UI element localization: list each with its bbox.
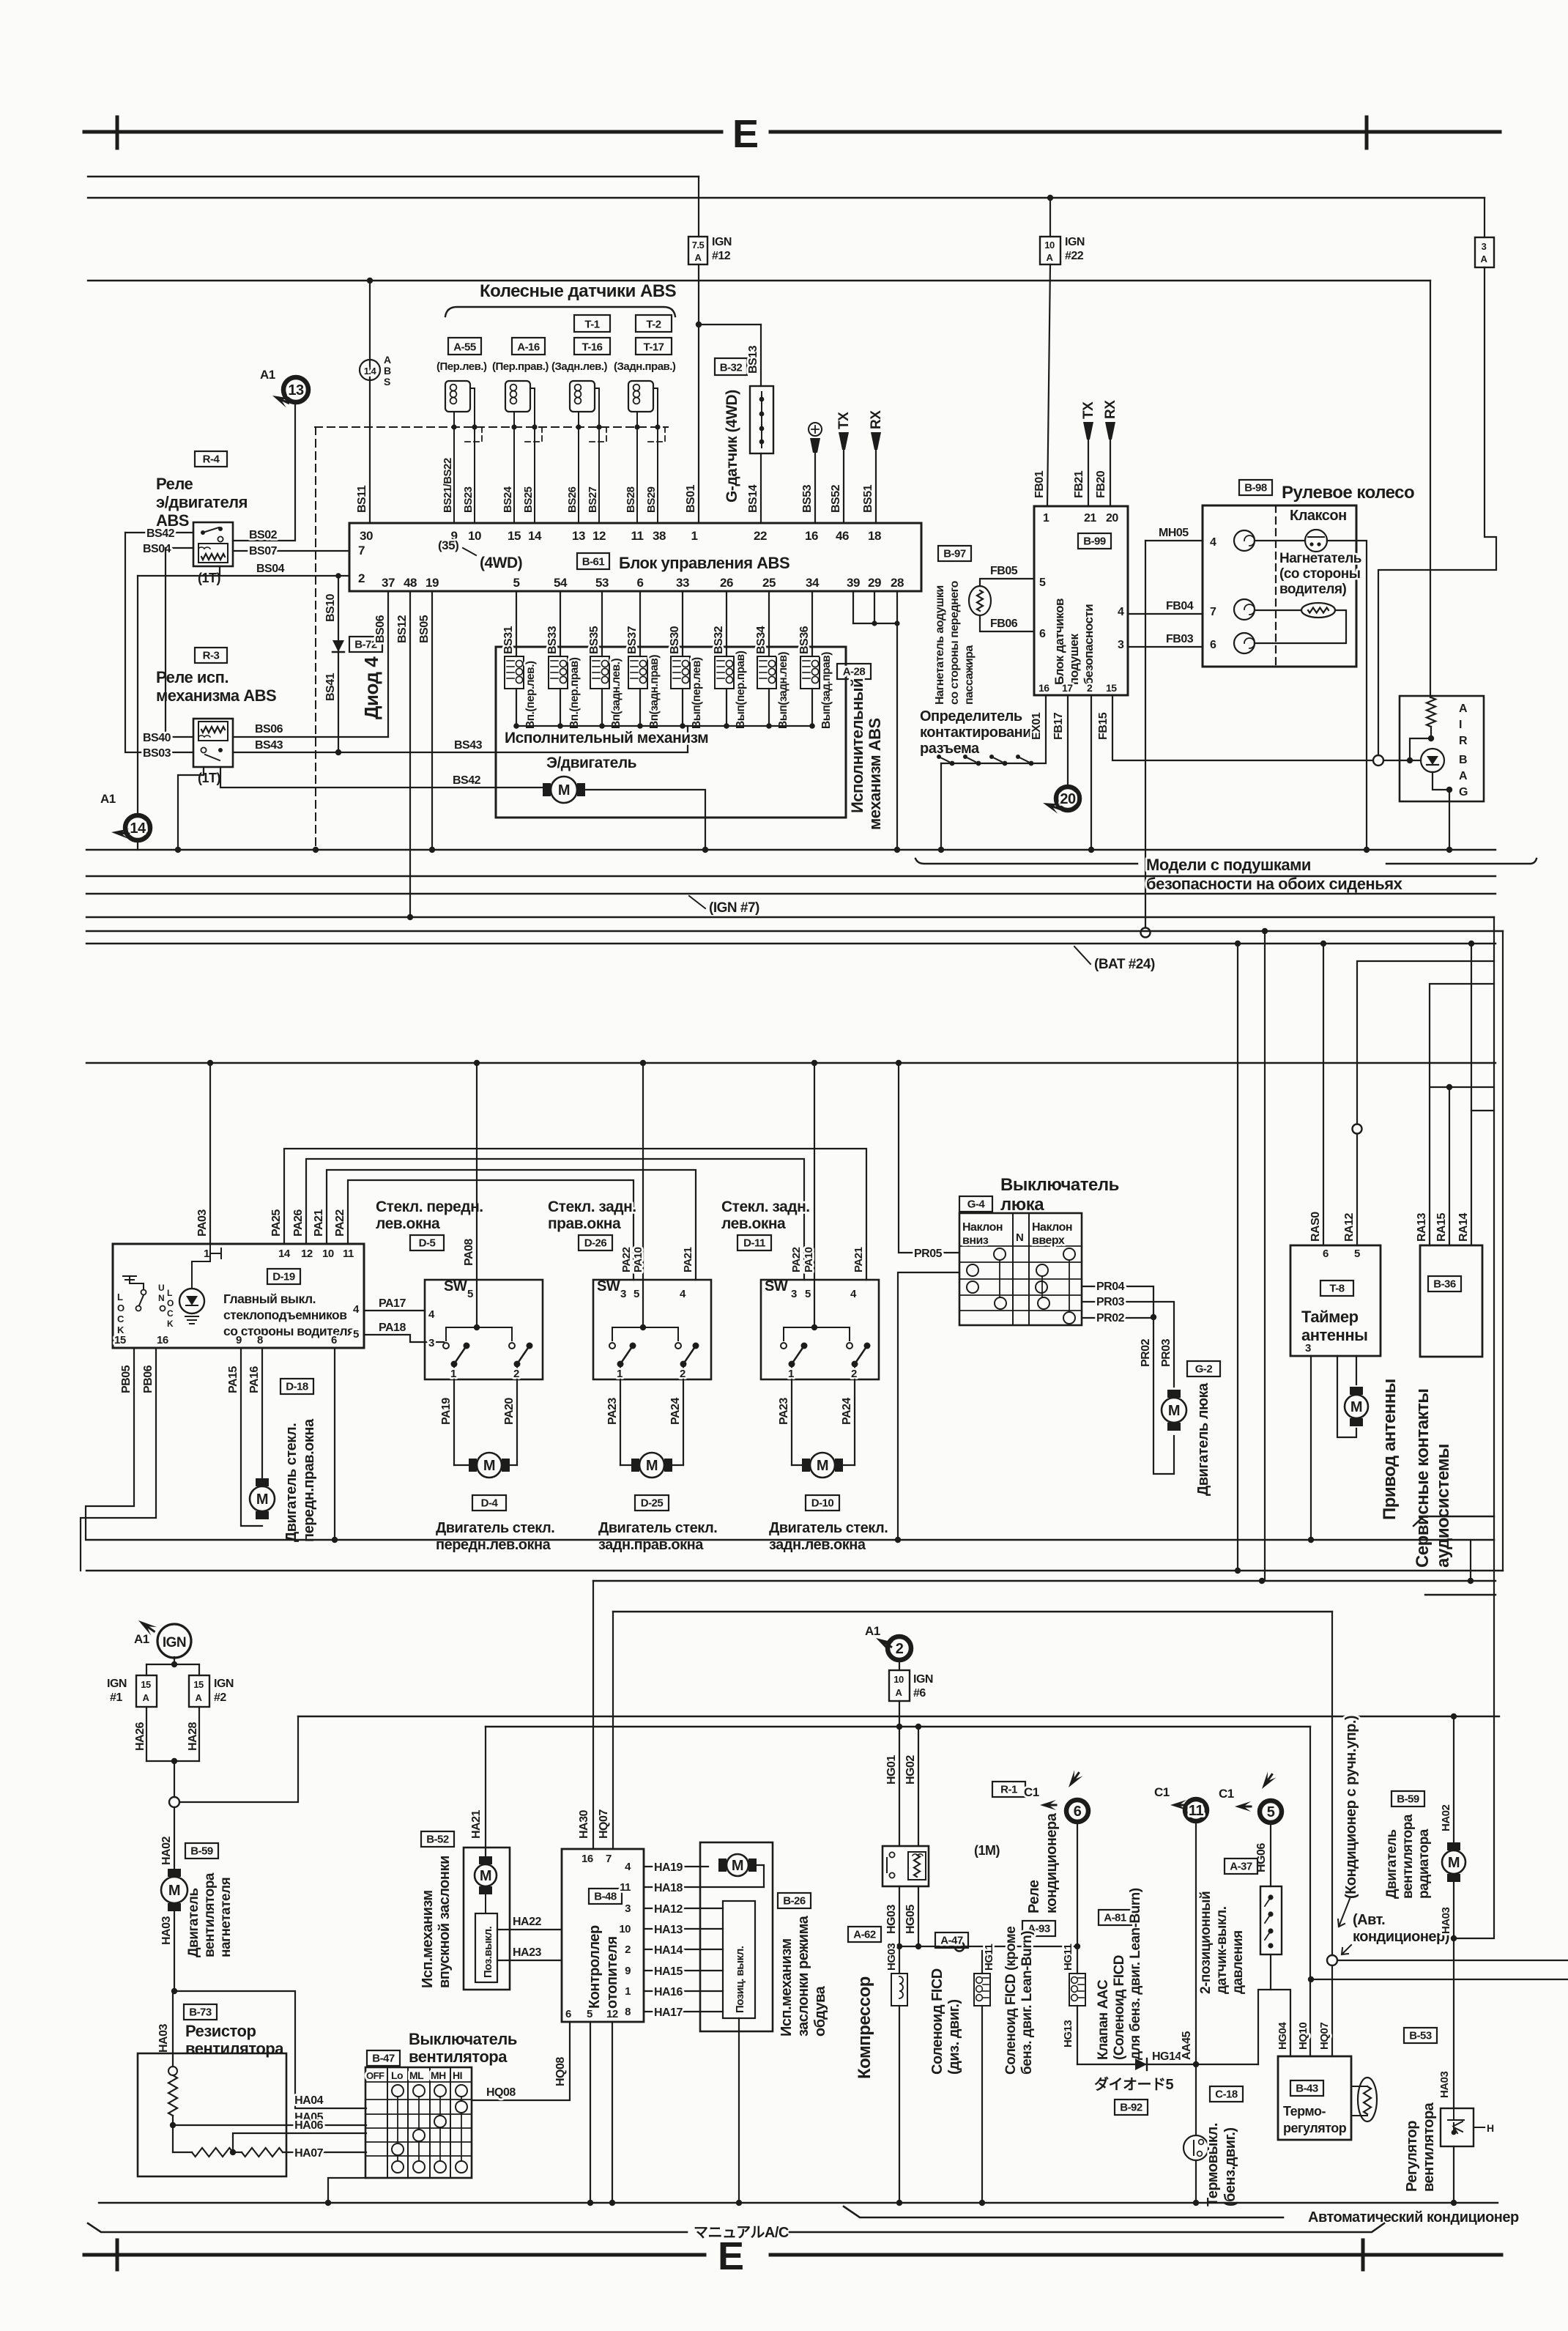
- svg-text:Резистор: Резистор: [185, 2022, 256, 2040]
- svg-text:Нагнетатель аодушки: Нагнетатель аодушки: [934, 585, 946, 705]
- svg-text:HG01: HG01: [885, 1755, 898, 1785]
- svg-text:(Пер.лев.): (Пер.лев.): [436, 360, 487, 373]
- svg-text:16: 16: [157, 1334, 168, 1346]
- svg-text:HA21: HA21: [470, 1809, 483, 1839]
- svg-text:A: A: [896, 1687, 903, 1698]
- svg-text:вентилятора: вентилятора: [185, 2039, 284, 2058]
- svg-text:HA03: HA03: [157, 2023, 170, 2053]
- svg-text:BS41: BS41: [324, 672, 337, 701]
- wire HA03 rad: [1453, 1882, 1454, 2108]
- svg-text:безопасности: безопасности: [1082, 604, 1096, 685]
- svg-text:B-98: B-98: [1244, 482, 1267, 494]
- svg-text:O: O: [167, 1298, 174, 1308]
- svg-text:вниз: вниз: [962, 1234, 989, 1247]
- svg-text:регулятор: регулятор: [1283, 2121, 1347, 2135]
- svg-text:D-26: D-26: [584, 1237, 607, 1250]
- svg-text:HA30: HA30: [578, 1809, 590, 1839]
- wire LED feed: [192, 1244, 210, 1289]
- wire bus top3: [88, 280, 1430, 281]
- wire squib return: [1255, 610, 1346, 643]
- arrow connector 14: [111, 827, 129, 839]
- svg-text:Соленоид FICD (кроме: Соленоид FICD (кроме: [1003, 1927, 1019, 2075]
- svg-text:RA14: RA14: [1457, 1212, 1470, 1242]
- wire sensor1 right lead: [470, 388, 475, 523]
- wire BS07 to ABS pin7: [233, 550, 349, 552]
- svg-text:G-датчик (4WD): G-датчик (4WD): [724, 390, 740, 503]
- wire BS06 R-3 to ABS pin37: [233, 736, 388, 738]
- wire pressure switch to AA45: [1258, 1954, 1271, 2064]
- node air bag resistor: [1428, 735, 1434, 741]
- wire HG14: [1077, 2064, 1196, 2065]
- bottom border tick right: [1361, 2240, 1365, 2269]
- svg-text:R-4: R-4: [203, 453, 220, 466]
- svg-text:37: 37: [382, 576, 395, 590]
- connector label B-59 blower: [185, 1843, 218, 1858]
- svg-text:вентилятора: вентилятора: [202, 1872, 218, 1957]
- svg-text:заслонки режима: заслонки режима: [795, 1915, 811, 2037]
- solenoid valve Вып(зад.прав): [811, 591, 813, 656]
- svg-text:Реле исп.: Реле исп.: [156, 668, 228, 686]
- wire FB21: [1088, 440, 1089, 506]
- svg-text:34: 34: [806, 576, 820, 590]
- svg-text:BS21/BS22: BS21/BS22: [442, 458, 454, 513]
- svg-text:BS30: BS30: [669, 626, 681, 654]
- node R-3 ground: [175, 847, 181, 853]
- svg-text:8: 8: [257, 1334, 263, 1346]
- svg-text:прав.окна: прав.окна: [548, 1215, 621, 1232]
- svg-text:5: 5: [1039, 577, 1046, 589]
- svg-text:BS23: BS23: [462, 486, 475, 513]
- svg-text:1: 1: [691, 529, 698, 543]
- svg-text:M: M: [483, 1458, 495, 1474]
- wire HA19: [644, 1866, 708, 1867]
- svg-text:PR03: PR03: [1096, 1296, 1125, 1308]
- wire bus top2: [88, 197, 1485, 199]
- svg-text:(Задн.лев.): (Задн.лев.): [551, 360, 608, 373]
- svg-text:4: 4: [680, 1288, 686, 1300]
- wire PA25 line: [284, 1149, 866, 1280]
- svg-text:15: 15: [508, 529, 521, 543]
- svg-text:отопителя: отопителя: [604, 1936, 620, 2009]
- svg-text:BS40: BS40: [143, 732, 171, 744]
- svg-text:12: 12: [606, 2008, 618, 2020]
- svg-text:5: 5: [513, 576, 520, 590]
- shield dashed line wheel sensors: [315, 426, 668, 428]
- brace wheel sensors: [445, 307, 675, 316]
- svg-text:(1M): (1M): [974, 1843, 1000, 1858]
- svg-text:кондиционера: кондиционера: [1044, 1812, 1060, 1913]
- svg-text:PA19: PA19: [440, 1398, 453, 1425]
- svg-text:BS27: BS27: [587, 486, 599, 513]
- svg-text:BS01: BS01: [685, 484, 697, 513]
- svg-text:BS12: BS12: [396, 615, 409, 643]
- svg-text:B: B: [1459, 754, 1467, 766]
- svg-text:FB04: FB04: [1166, 600, 1194, 612]
- FICD solenoid A-93: [1022, 1921, 1055, 1936]
- svg-text:B-43: B-43: [1296, 2083, 1318, 2095]
- svg-text:2-позиционный: 2-позиционный: [1198, 1891, 1214, 1994]
- svg-text:Реле: Реле: [1026, 1880, 1042, 1913]
- svg-text:21: 21: [1084, 512, 1096, 525]
- svg-text:Стекл. задн.: Стекл. задн.: [548, 1198, 636, 1215]
- svg-text:PA10: PA10: [632, 1247, 644, 1272]
- svg-text:Вып(пер.прав): Вып(пер.прав): [735, 651, 747, 729]
- svg-text:(1T): (1T): [198, 571, 221, 585]
- motor front right window D-18: [250, 1486, 275, 1511]
- svg-text:FB15: FB15: [1097, 712, 1110, 740]
- svg-text:A-47: A-47: [940, 1935, 963, 1947]
- svg-text:C1: C1: [1219, 1787, 1234, 1801]
- wire bus L4: [1425, 1594, 1495, 1596]
- wire PA21 line: [327, 1170, 696, 1280]
- svg-text:PA24: PA24: [841, 1398, 853, 1425]
- pressure switch A-37: [1225, 1858, 1257, 1874]
- svg-text:PA10: PA10: [803, 1247, 815, 1272]
- wire PA18: [364, 1335, 444, 1342]
- wire bus L5: [613, 1611, 1332, 1612]
- svg-text:5: 5: [633, 1288, 639, 1300]
- svg-text:20: 20: [1060, 791, 1076, 807]
- diagnostic terminal circle-plus: [809, 423, 822, 436]
- svg-text:PA24: PA24: [669, 1398, 682, 1425]
- svg-text:BS51: BS51: [862, 484, 874, 513]
- connector label D-18: [280, 1379, 313, 1394]
- svg-text:антенны: антенны: [1301, 1326, 1367, 1344]
- svg-text:T-8: T-8: [1329, 1283, 1344, 1295]
- wire PA10 D-11: [814, 1063, 815, 1327]
- svg-text:17: 17: [1062, 682, 1073, 694]
- svg-text:M: M: [168, 1883, 180, 1899]
- solenoid valve Вп.(пер.лев.): [516, 591, 517, 656]
- wire HA21: [485, 1727, 486, 1859]
- svg-text:RX: RX: [869, 410, 884, 429]
- sunroof motor G-2: [1162, 1398, 1186, 1423]
- wire mid vertical 1727: [1262, 928, 1268, 934]
- svg-text:7: 7: [358, 544, 365, 557]
- svg-text:54: 54: [554, 576, 568, 590]
- fan regulator transistor box: [1441, 2108, 1474, 2146]
- sheet connector circle 6: [1066, 1800, 1088, 1822]
- svg-text:Вып(зад.прав): Вып(зад.прав): [820, 652, 833, 729]
- svg-text:C: C: [117, 1313, 125, 1324]
- svg-text:Выключатель: Выключатель: [1000, 1175, 1119, 1195]
- sheet connector IGN circle: [157, 1624, 191, 1658]
- svg-text:PA15: PA15: [227, 1366, 239, 1393]
- svg-text:радиатора: радиатора: [1416, 1828, 1432, 1899]
- wire HA06: [233, 2133, 366, 2152]
- svg-text:5: 5: [1267, 1804, 1275, 1820]
- solenoid valve Вп(задн.лев.): [601, 591, 603, 656]
- svg-text:вентилятора: вентилятора: [1400, 1814, 1416, 1899]
- position switch B-26: [723, 1901, 755, 2018]
- svg-text:бенз. двиг. Lean-Burn): бенз. двиг. Lean-Burn): [1019, 1931, 1035, 2075]
- position switch B-52: [475, 1913, 497, 1982]
- svg-text:Рулевое колесо: Рулевое колесо: [1282, 483, 1414, 503]
- svg-text:5: 5: [467, 1288, 473, 1300]
- svg-text:Двигатель: Двигатель: [186, 1889, 201, 1958]
- svg-text:HI: HI: [453, 2069, 462, 2081]
- wire R-3 to ground bus: [178, 767, 204, 850]
- svg-text:53: 53: [595, 576, 609, 590]
- wire bus B3: [86, 916, 1494, 918]
- antenna timer T-8: [1320, 941, 1326, 946]
- wire resistor to diode line: [1410, 738, 1431, 760]
- svg-text:Соленоид FICD: Соленоид FICD: [929, 1968, 945, 2075]
- B-97 passenger airbag inflator: [938, 546, 971, 561]
- solenoid valve Вп.(пер.прав): [560, 591, 561, 656]
- svg-text:M: M: [1350, 1399, 1362, 1415]
- wire HA22: [497, 1929, 562, 1930]
- svg-text:PA16: PA16: [248, 1366, 261, 1393]
- svg-text:Наклон: Наклон: [1032, 1221, 1072, 1234]
- svg-text:B-26: B-26: [783, 1895, 806, 1908]
- svg-text:B-53: B-53: [1409, 2030, 1432, 2042]
- svg-text:BS52: BS52: [830, 484, 842, 513]
- svg-text:4: 4: [428, 1308, 435, 1321]
- wire BS42 R-4 left: [125, 532, 193, 533]
- svg-text:BS11: BS11: [356, 485, 368, 513]
- svg-text:5: 5: [587, 2008, 592, 2020]
- svg-text:PR04: PR04: [1096, 1281, 1125, 1293]
- wire window feed bus: [86, 1062, 1495, 1064]
- connector label D-11: [737, 1235, 771, 1250]
- svg-text:Сервисные контакты: Сервисные контакты: [1413, 1389, 1433, 1568]
- svg-text:E: E: [732, 112, 759, 156]
- connector label T-2: [636, 315, 672, 332]
- wire BS11: [367, 278, 373, 283]
- svg-text:15: 15: [193, 1679, 204, 1690]
- wire HA12: [644, 1908, 723, 1909]
- svg-text:O: O: [117, 1302, 125, 1313]
- svg-text:Клапан AAC: Клапан AAC: [1096, 1979, 1111, 2060]
- wires D-5 motor: [453, 1379, 455, 1465]
- svg-text:Вп(задн.прав): Вп(задн.прав): [648, 655, 661, 729]
- svg-text:A: A: [1047, 252, 1054, 263]
- svg-text:давления: давления: [1230, 1930, 1246, 1994]
- svg-text:Автоматический кондиционер: Автоматический кондиционер: [1308, 2209, 1519, 2226]
- svg-text:Двигатель стекл.: Двигатель стекл.: [769, 1520, 888, 1536]
- svg-text:HA06: HA06: [294, 2119, 324, 2132]
- wire FB15 to air bag: [1112, 695, 1373, 760]
- svg-text:FB01: FB01: [1033, 470, 1046, 498]
- svg-text:(35): (35): [438, 538, 458, 552]
- svg-text:M: M: [256, 1491, 268, 1508]
- wire RA14: [1471, 944, 1472, 1245]
- svg-text:HA19: HA19: [654, 1861, 683, 1874]
- wire sensor3 left lead: [578, 412, 579, 523]
- wire PA22 line: [348, 1180, 633, 1280]
- AAC valve label A-81: [1099, 1910, 1132, 1925]
- svg-text:EX01: EX01: [1030, 712, 1043, 740]
- svg-text:Двигатель стекл.: Двигатель стекл.: [598, 1520, 717, 1536]
- wire auto AC line to edge: [1337, 1960, 1568, 1961]
- window switch D-26 box: [593, 1280, 711, 1379]
- air bag resistor: [1430, 281, 1431, 697]
- svg-text:26: 26: [720, 576, 733, 590]
- arrow C1 c: [1235, 1801, 1251, 1812]
- svg-text:PB06: PB06: [142, 1365, 155, 1393]
- svg-text:BS37: BS37: [626, 626, 639, 654]
- svg-text:A: A: [384, 354, 391, 366]
- wire BS40: [166, 548, 193, 737]
- svg-text:HG03: HG03: [885, 1905, 898, 1934]
- svg-text:20: 20: [1106, 512, 1118, 525]
- svg-text:#12: #12: [712, 250, 731, 262]
- svg-text:#22: #22: [1065, 250, 1084, 262]
- sheet connector circle 5: [1260, 1801, 1282, 1823]
- svg-text:(Задн.прав.): (Задн.прав.): [614, 360, 676, 373]
- svg-text:4: 4: [850, 1288, 857, 1300]
- svg-text:BS06: BS06: [255, 723, 283, 735]
- svg-text:PA21: PA21: [852, 1247, 865, 1272]
- wire BS01 from fuse to ABS pin1: [698, 264, 699, 523]
- wire HVAC feed line A: [298, 1716, 1499, 1717]
- svg-text:OFF: OFF: [366, 2070, 384, 2081]
- svg-text:BS02: BS02: [249, 529, 278, 541]
- window switch D-11 box: [761, 1280, 879, 1379]
- wire B-26 to bus: [738, 2018, 740, 2203]
- svg-text:E: E: [718, 2234, 744, 2278]
- svg-text:HG13: HG13: [1062, 2020, 1074, 2047]
- wires HA26 HA28: [146, 1707, 147, 1761]
- svg-text:15: 15: [114, 1334, 126, 1346]
- svg-text:B-52: B-52: [426, 1834, 449, 1846]
- svg-text:9: 9: [236, 1334, 242, 1346]
- svg-text:#2: #2: [214, 1691, 226, 1704]
- svg-text:R-3: R-3: [203, 650, 220, 662]
- svg-text:A-62: A-62: [853, 1929, 876, 1941]
- svg-text:N: N: [158, 1293, 164, 1303]
- mode door actuator B-26: [700, 1842, 773, 2031]
- svg-text:I: I: [1459, 719, 1462, 731]
- svg-text:10: 10: [1044, 240, 1055, 251]
- wire HA16: [644, 1990, 723, 1992]
- solenoid valve Вп(задн.прав): [639, 591, 641, 656]
- svg-text:пассажира: пассажира: [963, 645, 976, 705]
- arrow connector 20: [1041, 798, 1061, 813]
- svg-text:Э/двигатель: Э/двигатель: [546, 755, 637, 771]
- svg-text:для бенз. двиг. Lean-Burn): для бенз. двиг. Lean-Burn): [1128, 1888, 1143, 2060]
- svg-text:HA02: HA02: [160, 1836, 173, 1865]
- svg-text:B: B: [384, 365, 391, 377]
- svg-text:D-11: D-11: [743, 1237, 765, 1250]
- wire RA12 branch: [1357, 961, 1494, 1124]
- connector circle blower feed: [169, 1797, 179, 1807]
- svg-text:L: L: [117, 1291, 123, 1302]
- resistor element vertical: [168, 2075, 177, 2116]
- master window switch D-19: [113, 1244, 364, 1348]
- wire HG14 to pressure node: [1196, 2064, 1258, 2065]
- wire FB06: [980, 615, 1034, 631]
- svg-text:(Кондиционер с ручн.упр.): (Кондиционер с ручн.упр.): [1343, 1716, 1359, 1899]
- FICD solenoid diesel A-47: [935, 1932, 968, 1948]
- svg-text:3: 3: [620, 1288, 626, 1300]
- svg-text:A: A: [1459, 770, 1468, 782]
- svg-text:стеклоподъемников: стеклоподъемников: [223, 1308, 347, 1322]
- svg-text:HQ07: HQ07: [598, 1809, 610, 1839]
- svg-text:3: 3: [1118, 639, 1124, 651]
- svg-text:2: 2: [851, 1368, 857, 1380]
- svg-text:IGN: IGN: [712, 236, 732, 248]
- svg-text:PA25: PA25: [270, 1209, 283, 1237]
- wire horn internal: [1255, 540, 1305, 541]
- driver squib: [1301, 603, 1335, 618]
- sheet connector circle 13: [283, 377, 308, 402]
- svg-text:HG04: HG04: [1277, 2022, 1289, 2050]
- svg-text:вверх: вверх: [1032, 1234, 1065, 1247]
- svg-text:IGN: IGN: [1065, 236, 1085, 248]
- svg-text:Блок датчиков: Блок датчиков: [1052, 598, 1066, 685]
- svg-text:впускной заслонки: впускной заслонки: [436, 1856, 453, 1988]
- svg-text:Двигатель люка: Двигатель люка: [1195, 1382, 1211, 1496]
- svg-text:PR02: PR02: [1096, 1312, 1125, 1324]
- svg-text:1: 1: [1043, 512, 1049, 525]
- svg-text:Исполнительный механизм: Исполнительный механизм: [505, 730, 708, 746]
- top border frame line E: [84, 130, 721, 134]
- svg-text:10: 10: [619, 1923, 631, 1935]
- svg-text:IGN: IGN: [163, 1635, 186, 1650]
- svg-text:BS34: BS34: [755, 626, 768, 654]
- wire BS42 to ABS motor: [220, 767, 545, 787]
- svg-text:7.5: 7.5: [692, 240, 705, 251]
- svg-text:HG14: HG14: [1152, 2050, 1181, 2063]
- svg-text:FB20: FB20: [1095, 470, 1107, 498]
- svg-text:3: 3: [791, 1288, 797, 1300]
- svg-text:PA20: PA20: [503, 1398, 516, 1425]
- wire bus B4 drop right: [1502, 931, 1504, 1571]
- svg-text:ML: ML: [409, 2069, 424, 2081]
- compressor A-62: [848, 1927, 881, 1942]
- wire PR02 to motor: [1153, 1317, 1174, 1474]
- blower motor B-59: [174, 1807, 175, 1869]
- svg-text:HA28: HA28: [187, 1722, 199, 1751]
- wire RA15 branch: [1431, 1086, 1494, 1088]
- solenoid valve Вып(пер.лев): [682, 591, 683, 656]
- svg-text:6: 6: [1039, 628, 1046, 640]
- svg-text:HQ07: HQ07: [1318, 2023, 1331, 2050]
- svg-text:14: 14: [278, 1248, 291, 1260]
- svg-text:T-16: T-16: [582, 341, 602, 354]
- svg-text:подушек: подушек: [1067, 633, 1081, 685]
- wire HA14: [644, 1949, 723, 1950]
- svg-text:(Соленоид FICD: (Соленоид FICD: [1112, 1955, 1127, 2060]
- svg-text:B-32: B-32: [720, 362, 743, 374]
- fuse 7.5A IGN #12: [698, 177, 699, 237]
- wire HA05: [173, 2124, 366, 2126]
- svg-text:датчик-выкл.: датчик-выкл.: [1214, 1907, 1230, 1994]
- svg-text:Модели с подушками: Модели с подушками: [1146, 856, 1311, 874]
- wire HA03: [174, 1911, 175, 1991]
- svg-text:Контроллер: Контроллер: [587, 1925, 603, 2009]
- svg-text:A1: A1: [134, 1632, 149, 1646]
- svg-text:3: 3: [1482, 241, 1487, 252]
- connector label B-61: [577, 553, 609, 569]
- svg-text:A-16: A-16: [517, 341, 540, 354]
- svg-text:HQ08: HQ08: [554, 2057, 567, 2086]
- svg-text:A: A: [1481, 253, 1488, 264]
- wire BS04 R-4 left: [166, 547, 193, 549]
- svg-text:2: 2: [358, 571, 365, 585]
- wire HG10: [1309, 1727, 1311, 2056]
- svg-text:Вп(задн.лев.): Вп(задн.лев.): [610, 659, 623, 729]
- wire MH05: [1145, 540, 1203, 541]
- svg-text:2: 2: [1087, 682, 1093, 694]
- wire L1-L3 link: [1470, 1540, 1471, 1581]
- resistor element h1: [192, 2148, 233, 2157]
- wire T-8 pin3 to bus: [1310, 1356, 1312, 1540]
- wire HA15: [644, 1970, 723, 1971]
- svg-text:лев.окна: лев.окна: [376, 1215, 440, 1232]
